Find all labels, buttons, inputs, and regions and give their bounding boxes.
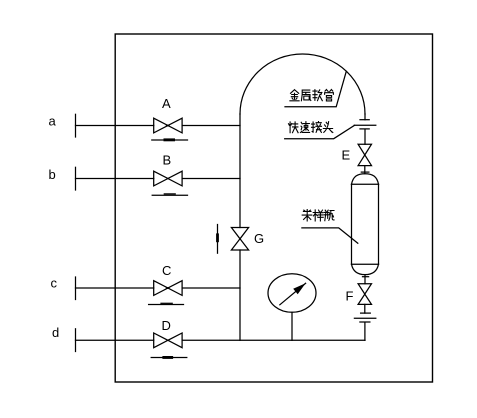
svg-text:d: d <box>52 325 59 340</box>
wire valve F to bottom connector <box>364 304 366 313</box>
valve C state bar <box>149 303 184 304</box>
svg-text:E: E <box>342 148 351 163</box>
svg-text:D: D <box>162 318 171 333</box>
valve A state bar <box>152 138 188 141</box>
wire line b <box>76 178 241 180</box>
sample bottle <box>352 174 379 275</box>
svg-text:C: C <box>162 263 171 278</box>
label 快速接头 (quick connector) <box>289 122 333 133</box>
valve E <box>358 144 371 165</box>
valve D <box>154 333 182 348</box>
wire bottle to valve F <box>364 275 366 284</box>
quick connector <box>354 120 376 129</box>
wire manifold vertical <box>239 114 241 340</box>
svg-text:b: b <box>49 167 56 182</box>
leader line quick connector <box>285 125 355 138</box>
wire connector to valve E <box>364 130 366 145</box>
bottle bottom flange tick <box>363 276 369 278</box>
label 采样瓶 (sample bottle) <box>302 210 334 221</box>
node d terminal tick <box>75 329 77 352</box>
node c terminal tick <box>75 277 77 300</box>
leader line metal hose <box>285 71 346 107</box>
bottom quick connector <box>354 313 375 322</box>
wire valve E to bottle <box>364 166 366 174</box>
metal hose arc <box>240 54 365 114</box>
pressure gauge <box>268 274 316 313</box>
leader line sample bottle <box>302 228 358 243</box>
wire connector down to line d <box>364 323 366 341</box>
valve G state bar <box>216 225 219 254</box>
bottle top flange tick <box>361 171 369 173</box>
valve B <box>154 171 182 186</box>
valve A <box>154 118 182 133</box>
svg-text:c: c <box>51 276 58 291</box>
valve G <box>231 228 248 251</box>
node a terminal tick <box>75 114 77 137</box>
svg-text:F: F <box>346 289 354 304</box>
svg-text:B: B <box>163 153 172 168</box>
border frame of schematic <box>115 34 432 382</box>
wire line d / bottom pipe <box>76 339 366 341</box>
valve F <box>358 284 371 305</box>
wire line a <box>76 125 241 127</box>
svg-text:a: a <box>49 114 57 129</box>
wire arc to connector <box>364 114 366 120</box>
valve B state bar <box>152 194 187 195</box>
wire line c <box>76 287 241 289</box>
label 金属软管 (metal hose) <box>290 90 334 101</box>
wire gauge stem <box>291 312 293 340</box>
valve C <box>154 281 182 296</box>
node b terminal tick <box>75 167 77 190</box>
svg-text:G: G <box>254 231 264 246</box>
valve D state bar <box>151 356 187 359</box>
svg-text:A: A <box>162 96 171 111</box>
